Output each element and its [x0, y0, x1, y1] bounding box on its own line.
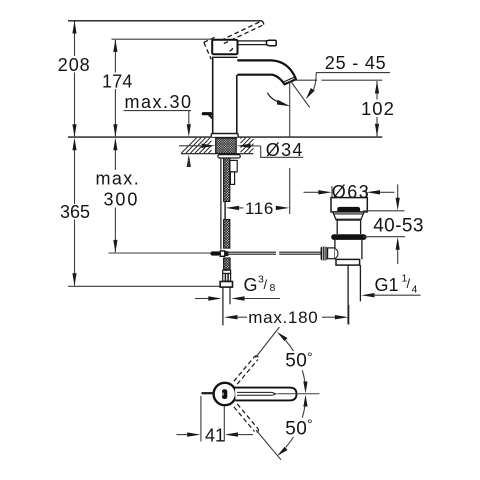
Ø34 leader step and underline [261, 146, 304, 157]
knurled knob [321, 247, 328, 261]
max.300 top arrow [113, 138, 117, 151]
40-53 underline / bottom extension [363, 236, 405, 238]
curved arrow left of stream [267, 93, 278, 102]
max.300 bottom arrow [113, 240, 117, 253]
41 dimension arrows [177, 434, 189, 436]
deck bottom line [181, 153, 254, 155]
plan: horizontal centerline right [278, 393, 320, 395]
dimension max.300 vertical line [114, 150, 116, 252]
pop-up lever knob on body [203, 112, 211, 115]
G1 1/4 label and leader [361, 293, 374, 297]
plan: lower 50 arc [286, 407, 305, 447]
365 bottom arrow [72, 273, 76, 286]
plan: lever slot [237, 392, 276, 395]
pull rod thin line [220, 158, 222, 249]
svg-text:102: 102 [361, 98, 395, 119]
102 top reference line [294, 79, 317, 81]
deck hatch left [182, 138, 212, 153]
40-53 top extension line [363, 210, 404, 212]
deck hatch right [241, 138, 254, 153]
41 dimension extension lines [200, 396, 202, 442]
faucet body cylinder [213, 57, 237, 133]
ridged fitting [223, 270, 231, 273]
102 dimension vertical [376, 81, 378, 136]
Ø63 arrows [304, 191, 319, 193]
base flange [211, 134, 238, 137]
svg-text:max.180: max.180 [248, 308, 318, 327]
cartridge ring line [212, 56, 238, 58]
plan: dashed lever up 50 [234, 356, 259, 384]
max.30 lower arrow below deck [187, 154, 191, 167]
svg-text:300: 300 [104, 190, 140, 210]
drain upper body [336, 220, 338, 234]
plan: upper angle ray [256, 327, 280, 358]
svg-text:G1: G1 [375, 275, 399, 295]
cross fitting on pop-up rod [210, 251, 220, 255]
svg-text:41: 41 [205, 426, 225, 446]
drain tailpipe [347, 265, 349, 324]
drain neck taper [333, 212, 364, 220]
lever paddle tip [267, 40, 277, 46]
svg-text:25 - 45: 25 - 45 [325, 53, 387, 73]
svg-text:208: 208 [58, 55, 91, 75]
braided supply hose [224, 158, 230, 202]
365 bottom reference line [68, 285, 220, 287]
max.180 dimension [224, 315, 238, 319]
svg-text:°: ° [307, 416, 313, 432]
drain lower body [334, 240, 336, 259]
dashed handle in raised position [204, 21, 264, 59]
handle head block [212, 40, 237, 54]
40-53 dimension arrows [397, 184, 399, 198]
spout aerator face inner line [284, 77, 294, 82]
svg-text:max.30: max.30 [125, 92, 193, 112]
drain cap body [331, 198, 367, 212]
max.30 dimension line [188, 111, 190, 125]
svg-text:116: 116 [245, 199, 274, 218]
lower braided hose below cross [224, 258, 231, 270]
svg-text:365: 365 [60, 202, 90, 222]
plan: lever horizontal [235, 388, 297, 401]
Ø34 leader arrows at shank [179, 145, 201, 147]
plan: lower angle ray [256, 430, 281, 460]
svg-text:50: 50 [285, 419, 307, 440]
dimension 365 vertical line [74, 150, 76, 286]
svg-text:G: G [244, 275, 258, 295]
hose guide block right [230, 160, 237, 172]
Ø63 extension lines [331, 186, 333, 198]
G3/8 connection nut [220, 282, 232, 288]
plan: lever pivot dark D [222, 389, 227, 399]
116 dimension with arrows [226, 206, 240, 210]
174 reference line [112, 38, 213, 40]
svg-text:4: 4 [412, 284, 418, 296]
lever bar [238, 41, 267, 45]
supply tube below nut [222, 287, 224, 325]
top reference line (lever max height, 208) [68, 20, 262, 22]
spout [237, 60, 296, 84]
stream direction diagonal line [291, 81, 310, 107]
ball joint stub and bulge [328, 248, 335, 259]
plan: pop-up knob stub [202, 392, 215, 394]
208 top arrow [72, 21, 76, 34]
svg-text:°: ° [307, 349, 313, 365]
365 top arrow [72, 138, 76, 151]
plan: upper 50 arc [286, 341, 305, 381]
plan: dashed lever down 50 [234, 404, 259, 432]
mounting washer under deck [218, 155, 240, 158]
174 bottom arrow [113, 124, 117, 137]
svg-text:40-53: 40-53 [373, 216, 424, 237]
G3/8 tube dimension arrows [195, 298, 209, 300]
svg-text:174: 174 [102, 72, 133, 92]
svg-text:Ø34: Ø34 [266, 140, 304, 160]
max.180 right extension line [348, 305, 350, 325]
dimension 208 vertical line [74, 22, 76, 137]
horizontal pop-up rod to drain (with break) [227, 252, 321, 254]
drain lock nut [336, 259, 360, 265]
svg-text:/: / [264, 277, 268, 292]
svg-text:max.: max. [96, 169, 141, 189]
drain O-ring seal [331, 234, 366, 240]
max.300 bottom reference line (pop-up rod level) [109, 252, 212, 254]
dimension 174 vertical line [114, 40, 116, 136]
drain plug dark band [337, 207, 360, 212]
svg-text:8: 8 [270, 282, 276, 294]
plan: faucet body circle [214, 383, 236, 405]
svg-text:50: 50 [285, 351, 307, 372]
208 bottom arrow [72, 124, 76, 137]
svg-text:/: / [407, 276, 411, 291]
threaded shank through deck [216, 138, 237, 153]
leader curve from 25-45 to stream [314, 73, 317, 90]
deck top line [68, 136, 382, 138]
stream direction vertical line from spout outlet [289, 82, 291, 137]
174 top arrow [113, 39, 117, 52]
